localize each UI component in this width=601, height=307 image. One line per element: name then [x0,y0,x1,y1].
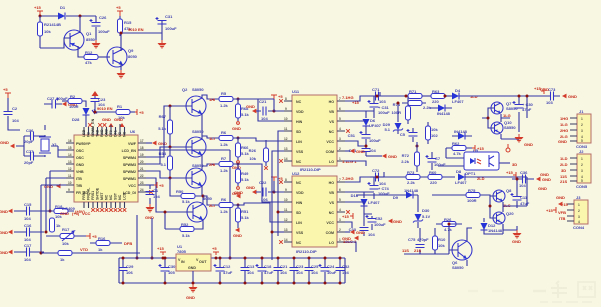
svg-text:104: 104 [12,118,19,123]
svg-text:LF407: LF407 [455,180,467,185]
capacitor C23 104 [91,96,107,112]
svg-text:5.1V: 5.1V [422,214,431,219]
svg-text:4: 4 [339,127,341,131]
svg-text:VC: VC [118,132,122,137]
power +5 [116,5,123,16]
svg-text:3: 3 [581,169,583,173]
svg-text:12: 12 [284,218,288,222]
svg-text:GND: GND [114,117,123,122]
wire emitter Q1 to R12 [78,46,84,57]
svg-text:1k: 1k [56,223,61,228]
junction U1 gnd [192,282,195,285]
svg-text:ITB: ITB [559,216,566,221]
CON5 pins [570,158,577,181]
junction C11 top [516,178,519,181]
svg-text:104: 104 [24,237,31,242]
svg-text:GND: GND [0,250,8,255]
svg-text:2: 2 [339,147,341,151]
svg-text:LIN: LIN [296,221,302,225]
svg-text:NC: NC [296,160,302,164]
svg-text:R26: R26 [444,217,452,222]
svg-text:VCC: VCC [82,211,91,216]
svg-text:VWF: VWF [128,142,137,146]
svg-text:HIN: HIN [296,120,303,124]
capacitor C2 104 [4,106,20,123]
wire Q8 Q20 bases [484,195,496,218]
svg-text:GND: GND [0,140,9,145]
svg-text:21: 21 [140,167,144,171]
svg-text:7805: 7805 [177,249,187,254]
svg-text:C31: C31 [165,14,173,19]
U12 NC marks [279,180,350,244]
net labels 11S 21S [402,248,421,253]
wire U11 LO [345,161,366,166]
wire bus down right [151,218,154,260]
svg-text:1: 1 [339,238,341,242]
ground gnd Q20 [512,230,522,244]
svg-text:105: 105 [168,270,175,275]
CON3 net labels [558,116,568,144]
wire U11 VCC [345,141,366,146]
svg-text:MST: MST [100,192,104,200]
diode D1 [58,5,66,20]
svg-text:R5: R5 [221,91,227,96]
capacitor C24 10uF [319,257,337,285]
CON4 net labels [556,195,569,221]
svg-text:15: 15 [68,146,72,150]
svg-text:14: 14 [284,157,288,161]
svg-text:R60: R60 [429,170,437,175]
svg-text:R62: R62 [452,141,460,146]
junction LCD_EN rail [229,257,232,260]
wire base Q1 [40,38,71,48]
transistor Q10 S8550 [491,120,516,134]
resistor R67 5.1k [158,106,172,147]
svg-text:22: 22 [140,174,144,178]
svg-text:NC: NC [329,130,335,134]
resistor R6 1.2k [219,130,233,147]
svg-text:5.1k: 5.1k [182,233,191,238]
capacitor C33 104 [349,214,376,237]
svg-text:5.1k: 5.1k [241,112,250,117]
ground port C33 [342,236,359,241]
svg-text:C25: C25 [311,264,319,269]
svg-text:C16: C16 [24,223,32,228]
wire Q7 Q10 bases [482,96,530,128]
svg-text:16: 16 [68,139,72,143]
capacitor C15 104 [14,202,44,221]
capacitor C74 100uF [368,177,391,199]
svg-text:19: 19 [140,153,144,157]
resistor R63 220 [431,89,445,104]
svg-text:D30: D30 [422,208,430,213]
wire R52 left [165,212,180,229]
svg-text:GND: GND [158,141,167,146]
svg-text:VFB: VFB [558,210,566,215]
svg-text:3: 3 [339,218,341,222]
wire Q4 base [170,177,192,179]
svg-text:C15: C15 [24,202,32,207]
svg-text:104: 104 [261,116,268,121]
svg-text:C75: C75 [408,237,416,242]
svg-text:IN4148: IN4148 [454,129,468,134]
svg-text:104: 104 [153,194,160,199]
wire bus down left [136,215,139,260]
ground port VWF pin [146,141,167,146]
wire Q20 collector down [503,177,527,230]
svg-text:UF407: UF407 [369,123,382,128]
transistor Q2 S8050 [182,87,206,116]
svg-text:GND: GND [388,154,397,159]
svg-text:5: 5 [581,139,583,143]
svg-text:C18: C18 [264,264,272,269]
svg-text:NC: NC [123,131,127,137]
svg-text:LO: LO [329,160,334,164]
wire out4 to U12 LIN [238,203,284,222]
svg-text:LIN: LIN [296,140,302,144]
svg-text:GND: GND [542,177,551,182]
power +5 right of R17 [86,233,97,239]
svg-text:100uF: 100uF [165,26,177,31]
IC U12 body [292,171,337,254]
U6 top net ports [102,117,125,127]
wire Q9 emitter [120,63,122,70]
capacitor C75 470pF [408,228,429,254]
U12 right pin names [326,181,335,245]
resistor R50 5.1k [176,189,202,204]
svg-text:VSS: VSS [296,231,304,235]
svg-text:VDD: VDD [296,110,304,114]
svg-text:IN: IN [181,260,185,264]
capacitor C26 100uF [90,15,111,40]
wire opto left pins [438,148,464,166]
svg-text:13: 13 [284,228,288,232]
svg-text:GND: GND [538,186,547,191]
svg-text:VS: VS [329,120,334,124]
svg-text:2: 2 [581,123,583,127]
svg-text:VB: VB [329,191,334,195]
ground port C73 [562,94,577,99]
svg-text:11: 11 [284,208,288,212]
svg-text:NC: NC [329,211,335,215]
svg-text:VHB: VHB [76,170,84,174]
svg-text:R17: R17 [62,227,70,232]
wire top pins up [111,124,120,127]
diode D11 1N4148 [356,188,419,212]
wire U12 LO [345,242,356,252]
svg-text:10k: 10k [431,127,438,132]
svg-text:C24: C24 [327,264,335,269]
transistor Q9 8050 [107,47,138,67]
svg-text:104: 104 [247,270,254,275]
capacitor C23 104 [290,257,305,285]
U12 SD wire junction [277,211,285,214]
svg-text:GND: GND [556,195,565,200]
svg-text:14: 14 [68,153,72,157]
wire Q5 collector to R6b [203,196,219,205]
svg-text:COM: COM [326,231,334,235]
svg-text:+15: +15 [157,246,165,251]
svg-text:23: 23 [140,181,144,185]
svg-text:10: 10 [284,117,288,121]
svg-text:R52: R52 [181,222,189,227]
resistor R15 47k [118,16,133,36]
svg-text:TXD: TXD [96,129,100,137]
svg-text:12: 12 [68,167,72,171]
svg-text:NC: NC [296,100,302,104]
resistor R7 1.2k [219,156,233,173]
svg-text:VSS: VSS [296,150,304,154]
svg-text:GND: GND [0,209,8,214]
CON3 pins [570,118,577,141]
svg-text:C23: C23 [296,264,304,269]
resistor R49 5.1k [233,164,250,186]
svg-text:GND: GND [186,295,195,300]
svg-text:+15: +15 [477,146,485,151]
svg-text:10k: 10k [44,29,51,34]
svg-text:106: 106 [126,270,133,275]
resistor R1 10k [116,104,130,120]
svg-text:10k: 10k [249,156,256,161]
junction Q3 base [169,146,172,149]
wire zener feed [397,103,399,122]
svg-text:C1: C1 [153,188,159,193]
ground port row ITB [44,184,61,189]
svg-text:C32: C32 [342,264,350,269]
U6 left pin names [76,142,91,195]
svg-text:Q2: Q2 [182,87,188,92]
svg-text:+5: +5 [3,87,8,92]
svg-text:20pF: 20pF [24,160,34,165]
resistor R61 10k vertical [426,122,439,144]
svg-text:HIN: HIN [296,201,303,205]
svg-text:GND: GND [246,104,255,109]
svg-text:C51: C51 [348,133,356,138]
svg-text:47uF: 47uF [223,270,233,275]
svg-text:OSC: OSC [76,156,84,160]
svg-text:GND: GND [102,117,111,122]
svg-text:104: 104 [369,148,376,153]
wire bottom top rail [119,257,345,259]
svg-text:17: 17 [140,139,144,143]
U6 bottom net labels [60,211,91,216]
svg-text:13: 13 [68,160,72,164]
power +5 left [3,87,11,98]
svg-text:C22: C22 [259,180,267,185]
ground under C1 [145,204,155,220]
svg-text:100uF: 100uF [56,96,68,101]
svg-text:2HG: 2HG [560,128,568,133]
svg-text:11S: 11S [402,248,409,253]
svg-text:+5: +5 [139,110,144,115]
svg-text:5.1k: 5.1k [182,199,191,204]
svg-text:100uF: 100uF [378,110,390,115]
capacitor C12 47uF [214,257,233,285]
svg-text:CON5: CON5 [576,184,588,189]
svg-text:C21: C21 [280,264,288,269]
resistor R66 5.1k [233,138,250,160]
svg-text:104: 104 [24,216,31,221]
svg-text:IN4148: IN4148 [437,111,451,116]
svg-text:104: 104 [311,270,318,275]
wire crystal to MCU [16,125,66,157]
wire sense row [404,250,467,266]
capacitor C51 100uF [348,126,381,146]
svg-text:FRQHL: FRQHL [87,187,91,200]
diode D4 UF4007 [445,88,464,104]
svg-text:10: 10 [68,181,72,185]
wire Q5 emitter [194,220,203,229]
junction dots row1 [397,95,447,148]
svg-text:1: 1 [339,157,341,161]
svg-text:102: 102 [431,133,438,138]
wire Q6 base [449,224,462,250]
capacitor C31 100uF [155,14,177,40]
svg-text:FC: FC [87,132,91,137]
svg-text:47k: 47k [85,60,92,65]
capacitor C27 100uF [44,96,68,109]
svg-text:TfB: TfB [76,184,82,188]
svg-text:3: 3 [339,137,341,141]
svg-text:R1: R1 [117,104,123,109]
svg-text:R21414B: R21414B [44,22,61,27]
resistor R16 1k [90,236,122,252]
svg-text:R10: R10 [438,237,446,242]
svg-text:220: 220 [430,180,437,185]
svg-text:SD: SD [296,211,301,215]
capacitor C13 104 [241,257,256,285]
junction C71 [376,95,379,98]
svg-text:10k: 10k [62,241,69,246]
ground port C36 [536,177,551,191]
svg-text:R12: R12 [85,50,93,55]
svg-text:DT0: DT0 [109,130,113,137]
U6 bottom pins [84,202,125,208]
svg-text:7: 7 [339,178,341,182]
svg-text:104: 104 [519,183,526,188]
svg-text:GND: GND [0,230,8,235]
resistor R51 5.1k [233,205,250,228]
svg-text:R72: R72 [402,153,410,158]
svg-text:8050: 8050 [128,54,138,59]
svg-text:IR2110-DIP: IR2110-DIP [296,249,317,254]
ground under C31 [158,40,167,49]
svg-text:VCC: VCC [326,140,334,144]
capacitor C22 106 [246,176,283,202]
U12 right pins [337,178,345,242]
wire channel2 out [380,92,384,177]
ground port near C27 [62,102,77,107]
wire Q3 base [170,146,192,148]
ground port R68 [232,122,241,131]
svg-text:100R: 100R [391,110,401,115]
wire U12 VCC [345,222,352,228]
svg-text:8: 8 [285,178,287,182]
svg-text:100uF: 100uF [374,222,386,227]
svg-text:S8050: S8050 [192,129,204,134]
svg-text:3: 3 [578,215,580,219]
wire C14 bottom [366,155,382,157]
svg-text:J3: J3 [576,195,581,200]
CON5 net labels [560,156,568,184]
svg-text:2: 2 [339,228,341,232]
NC mark LCD_DI [146,190,153,194]
svg-text:OPT1: OPT1 [465,171,476,176]
svg-text:8050: 8050 [203,196,213,201]
svg-text:NC: NC [105,194,109,200]
svg-text:D9: D9 [393,195,399,200]
wire rail left end [118,258,120,283]
capacitor C11 47uF [511,179,530,208]
svg-text:+15: +15 [506,170,514,175]
diode D8 UF4007 [455,169,467,185]
svg-text:GND: GND [60,211,69,216]
svg-text:VB: VB [329,110,334,114]
capacitor C18 47uF [256,257,274,285]
svg-text:100uF: 100uF [98,29,110,34]
node junction at R top [39,15,42,18]
svg-text:D4: D4 [455,88,461,93]
svg-text:104: 104 [296,270,303,275]
svg-text:9010 EN: 9010 EN [97,106,113,111]
svg-text:RXD: RXD [100,129,104,137]
wire Q2 base [170,105,192,107]
svg-text:OUT: OUT [199,260,207,264]
svg-text:SPWM2: SPWM2 [123,170,136,174]
svg-text:GND: GND [76,163,84,167]
wire SPWM3 to driver2 [146,147,170,164]
svg-text:NC: NC [296,181,302,185]
power +5 right of R1 [130,109,144,115]
svg-text:4: 4 [339,208,341,212]
red mark opto gnd [506,144,510,152]
wire out2 to U11 LIN [238,138,284,141]
svg-text:LF407: LF407 [368,200,380,205]
U11 left pin names [296,100,304,164]
wire R71 to R63 [422,95,431,97]
vertical bus wires [41,171,66,253]
transistor Q5 S8050 [187,196,213,222]
wire D8 right [465,176,527,178]
capacitor C21 104 [246,94,283,121]
svg-text:S8050: S8050 [192,87,204,92]
svg-text:47uF: 47uF [264,270,274,275]
svg-text:1LD: 1LD [560,156,568,161]
svg-text:3: 3 [581,129,583,133]
svg-text:1k: 1k [60,257,65,262]
U11 VDD wire [250,99,284,111]
svg-text:6: 6 [339,107,341,111]
svg-text:R75: R75 [468,188,476,193]
svg-text:C26: C26 [99,15,107,20]
svg-text:DT1: DT1 [114,130,118,137]
junction R52 [164,211,167,214]
ground port C15 [0,209,13,214]
svg-text:R15: R15 [124,20,132,25]
wire Q2 emitter down [201,114,203,134]
ground gnd Q10 [515,134,534,147]
U11 right pins [337,97,345,161]
IC U6 body [74,129,138,202]
transistor Q1 8550 [64,30,96,50]
svg-text:1HG: 1HG [560,116,568,121]
svg-text:U12: U12 [292,171,300,176]
svg-text:VCC: VCC [128,184,136,188]
node junction at collector [79,15,82,18]
power +15 [34,5,43,16]
svg-text:LCD: LCD [123,192,127,200]
ground under Q9 [117,70,126,79]
